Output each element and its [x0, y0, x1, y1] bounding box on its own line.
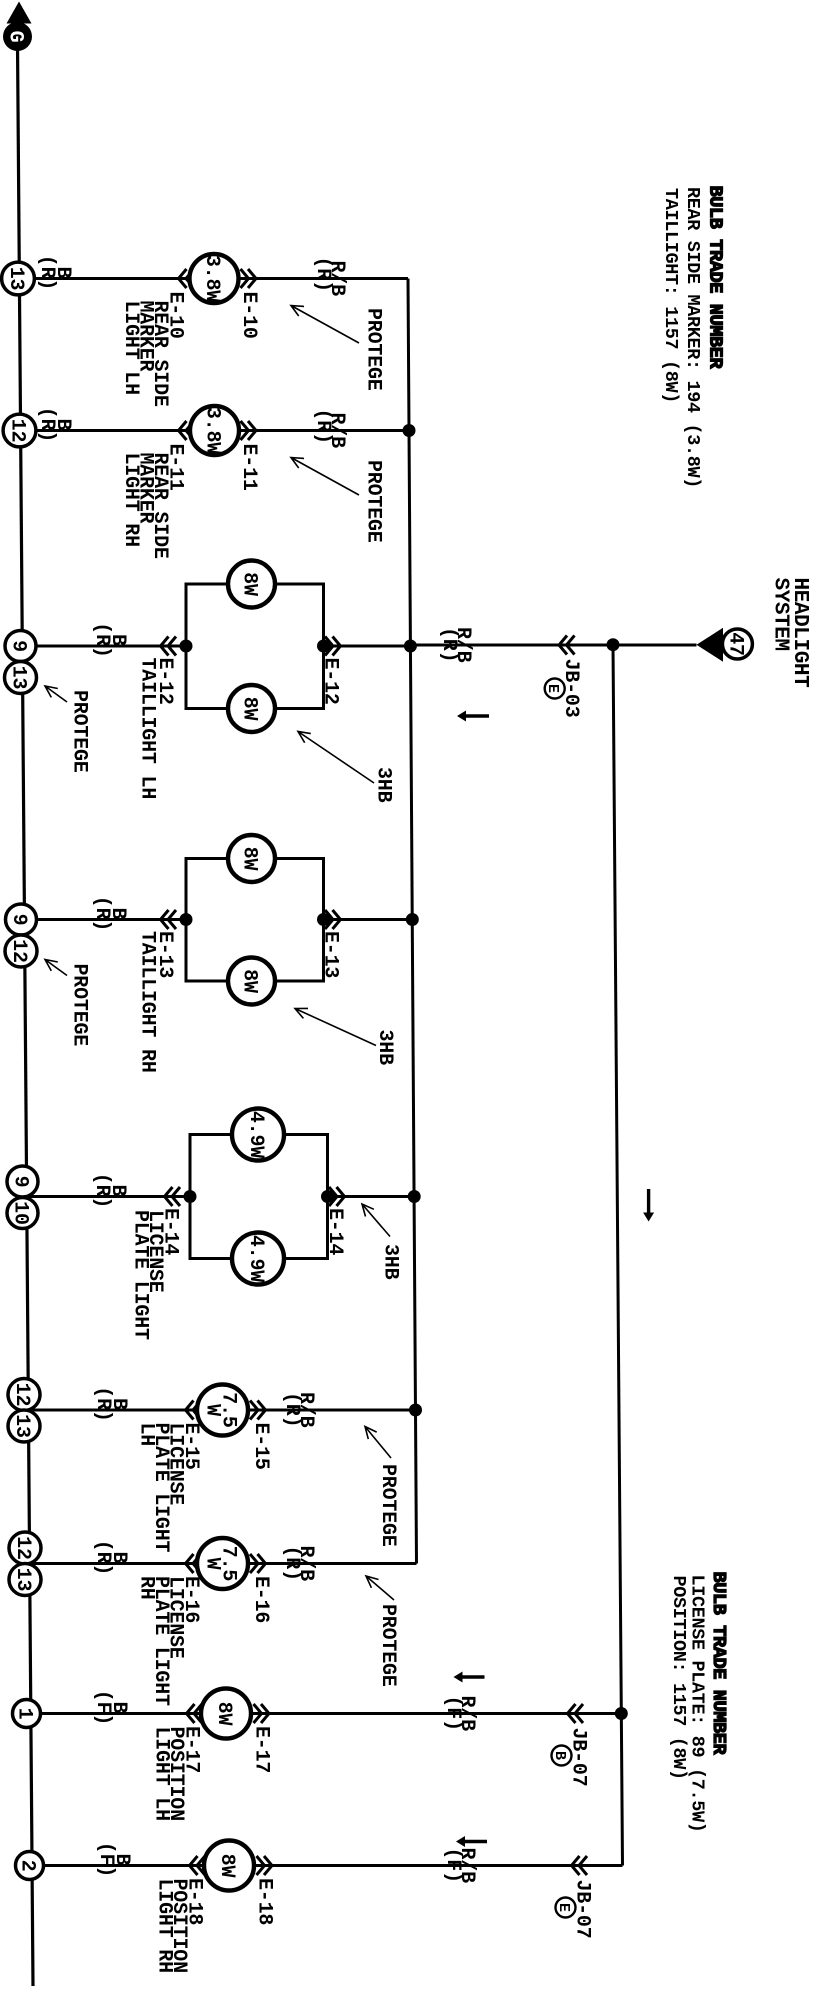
svg-text:(F): (F) — [94, 1842, 117, 1877]
svg-text:PROTEGE: PROTEGE — [68, 690, 91, 773]
svg-text:TAILLIGHT LH: TAILLIGHT LH — [136, 658, 159, 800]
svg-text:1: 1 — [13, 1708, 36, 1720]
svg-text:TAILLIGHT: 1157 (8W): TAILLIGHT: 1157 (8W) — [660, 188, 681, 403]
svg-text:4.9W: 4.9W — [244, 1235, 267, 1282]
svg-text:E-16: E-16 — [249, 1576, 272, 1623]
svg-text:(F): (F) — [91, 1690, 114, 1725]
svg-text:(R): (R) — [90, 896, 113, 931]
svg-text:3.8W: 3.8W — [200, 255, 223, 302]
svg-text:12: 12 — [6, 419, 29, 443]
svg-text:8W: 8W — [238, 572, 261, 596]
svg-text:TAILLIGHT RH: TAILLIGHT RH — [136, 931, 159, 1073]
svg-text:(R): (R) — [91, 1386, 114, 1421]
svg-text:13: 13 — [10, 1414, 33, 1438]
svg-text:9: 9 — [7, 640, 30, 652]
svg-text:3.8W: 3.8W — [201, 407, 224, 454]
svg-text:(R): (R) — [91, 1540, 114, 1575]
svg-text:3HB: 3HB — [379, 1244, 402, 1280]
svg-text:13: 13 — [7, 666, 30, 690]
svg-text:LH: LH — [135, 1423, 158, 1447]
svg-text:(R): (R) — [35, 407, 58, 442]
svg-text:BULB TRADE NUMBER: BULB TRADE NUMBER — [708, 1572, 729, 1756]
svg-text:PROTEGE: PROTEGE — [376, 1604, 399, 1687]
svg-text:8W: 8W — [212, 1702, 235, 1726]
svg-text:(R): (R) — [35, 255, 58, 290]
svg-text:(R): (R) — [280, 1546, 303, 1581]
svg-text:LIGHT LH: LIGHT LH — [150, 1727, 173, 1821]
svg-text:PROTEGE: PROTEGE — [362, 308, 385, 391]
svg-text:POSITION: 1157 (8W): POSITION: 1157 (8W) — [668, 1576, 689, 1780]
svg-text:9: 9 — [7, 914, 30, 926]
svg-text:12: 12 — [7, 939, 30, 963]
svg-text:E-10: E-10 — [237, 292, 260, 339]
svg-text:8W: 8W — [238, 697, 261, 721]
svg-text:E: E — [555, 1903, 572, 1912]
svg-text:PLATE LIGHT: PLATE LIGHT — [129, 1210, 152, 1340]
svg-text:PROTEGE: PROTEGE — [68, 964, 91, 1047]
svg-text:LIGHT RH: LIGHT RH — [153, 1879, 176, 1973]
svg-text:(F): (F) — [441, 1848, 464, 1883]
svg-text:3HB: 3HB — [373, 1030, 396, 1066]
svg-text:W: W — [200, 1558, 223, 1570]
svg-text:LIGHT LH: LIGHT LH — [119, 301, 142, 395]
svg-text:8W: 8W — [238, 847, 261, 871]
svg-text:10: 10 — [9, 1201, 32, 1225]
svg-text:2: 2 — [16, 1860, 39, 1872]
svg-text:3HB: 3HB — [372, 767, 395, 803]
svg-text:(R): (R) — [311, 257, 334, 292]
svg-text:12: 12 — [11, 1536, 34, 1560]
svg-text:E-17: E-17 — [250, 1726, 273, 1773]
svg-text:8W: 8W — [238, 969, 261, 993]
svg-text:E-18: E-18 — [253, 1878, 276, 1925]
svg-text:BULB TRADE NUMBER: BULB TRADE NUMBER — [705, 186, 726, 370]
svg-text:E-11: E-11 — [237, 444, 260, 491]
svg-text:(R): (R) — [90, 1173, 113, 1208]
svg-text:G: G — [4, 31, 27, 43]
svg-text:(R): (R) — [90, 622, 113, 657]
svg-text:(F): (F) — [441, 1696, 464, 1731]
svg-text:W: W — [200, 1404, 223, 1416]
svg-text:47: 47 — [724, 632, 747, 656]
svg-text:B: B — [551, 1751, 568, 1760]
svg-text:9: 9 — [9, 1176, 32, 1188]
svg-text:(R): (R) — [311, 409, 334, 444]
svg-text:REAR SIDE MARKER: 194 (3.8W): REAR SIDE MARKER: 194 (3.8W) — [682, 187, 703, 488]
svg-text:12: 12 — [10, 1383, 33, 1407]
svg-text:SYSTEM: SYSTEM — [769, 578, 792, 651]
svg-text:LIGHT RH: LIGHT RH — [119, 453, 142, 547]
svg-text:13: 13 — [11, 1568, 34, 1592]
svg-text:E-12: E-12 — [319, 658, 342, 705]
svg-text:E-15: E-15 — [249, 1423, 272, 1470]
svg-text:(R): (R) — [437, 627, 460, 662]
svg-text:8W: 8W — [215, 1854, 238, 1878]
svg-text:13: 13 — [4, 267, 27, 291]
svg-text:PROTEGE: PROTEGE — [376, 1464, 399, 1547]
svg-text:PROTEGE: PROTEGE — [362, 460, 385, 543]
svg-text:(R): (R) — [280, 1392, 303, 1427]
svg-text:E: E — [544, 684, 561, 693]
svg-text:E-14: E-14 — [323, 1208, 346, 1255]
svg-text:E-13: E-13 — [319, 931, 342, 978]
svg-text:4.9W: 4.9W — [244, 1111, 267, 1158]
svg-text:RH: RH — [135, 1576, 158, 1600]
